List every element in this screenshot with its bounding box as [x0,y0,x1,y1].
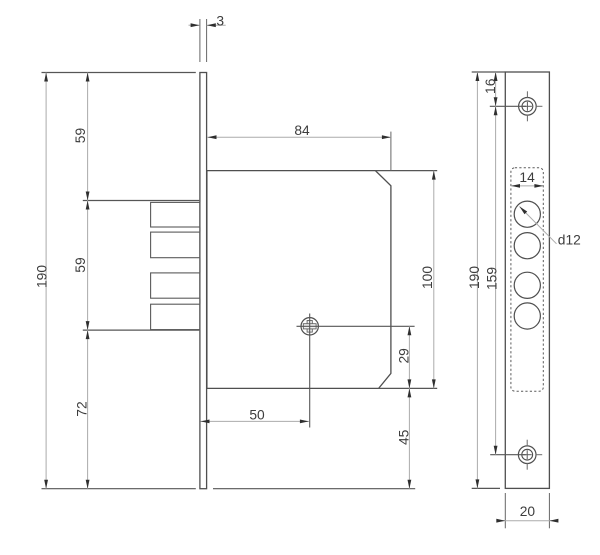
deadbolt pin 4 (side view) [151,304,200,329]
top screw hole outer circle [519,98,537,116]
centerline vertical through spindle hole to 50 dim [309,314,311,428]
arrow 59 top [86,73,90,82]
svg-text:59: 59 [73,257,88,273]
arrow 84 left [208,135,217,139]
svg-text:3: 3 [216,13,224,28]
arrow 50 right [300,420,309,424]
arrow 190 top [44,73,48,82]
spindle hole cross insert - vertical bar [307,321,312,333]
extension line - 3 dim right [206,19,208,62]
leader line d12 [520,207,557,244]
arrow 3 left [191,23,200,27]
deadbolt pin 3 (side view) [151,273,200,298]
bottom screw hole centerline dashes [526,440,528,447]
arrow 100 bottom [432,379,436,388]
lock case body (side view, chamfered right corners) [207,171,391,389]
extension line - bottom right of faceplate to 45 dim [213,488,415,490]
top screw hole centerline dashes [526,91,528,98]
arrow pair lower boundary [86,321,90,330]
centerline horizontal through spindle hole to 29 dim [297,325,415,327]
arrow 20 right [549,519,558,523]
svg-text:190: 190 [467,266,482,289]
svg-text:59: 59 [73,128,88,144]
dimension line 3 left tail [189,24,200,26]
dimension line 50 [201,420,309,422]
faceplate (front view) [505,72,549,488]
arrow 50 left [201,420,210,424]
top screw hole inner circle [522,101,533,112]
dimension line 59-59-72 chain [87,73,89,489]
dimension line 16-159 chain [495,72,497,455]
extension line - 20 dim right [548,493,550,528]
extension line - faceplate bottom left part [42,488,196,490]
arrow 190 bottom [44,480,48,489]
svg-text:50: 50 [249,408,265,423]
dimension line 3 right tail [207,24,226,26]
svg-text:100: 100 [420,266,435,289]
extension line - lower bolt group boundary [83,329,200,331]
deadbolt pin 1 (side view) [151,202,200,227]
arrow 190fv bottom [476,479,480,488]
arrow pair at body bottom [408,379,412,388]
dimension line 190 front view [476,72,478,488]
svg-text:29: 29 [396,348,411,364]
bottom screw hole center cross [523,454,532,456]
extension line - plate bottom to 190 dim [472,487,500,489]
extension line - upper bolt group boundary [83,200,200,202]
bottom screw hole outer circle [518,446,536,464]
bolt hole circle 2 (front view) [514,233,540,259]
bolt hole circle 3 (front view) [514,272,540,298]
faceplate (side view, 3mm thick plate) [200,73,207,489]
svg-text:14: 14 [519,170,535,185]
arrow 84 right [382,135,391,139]
svg-text:45: 45 [396,429,411,445]
arrow 14 right [534,184,543,188]
top screw hole center cross [523,105,532,107]
extension line - 84 dim right above body [390,132,392,171]
arrow 29 top [408,326,412,335]
spindle hole cross insert - horizontal bar [303,324,316,329]
bolt hole circle 1 (front view) [514,201,540,227]
arrow pair at top screw center [494,97,498,106]
arrow 159 bottom [494,446,498,455]
arrow 72 bottom [86,480,90,489]
svg-text:16: 16 [483,78,498,94]
extension line - plate top, front view [472,71,506,73]
arrow 45 bottom [408,480,412,489]
extension line - body bottom edge to 100 dim [379,387,438,389]
svg-text:159: 159 [484,267,499,290]
svg-text:d12: d12 [558,233,581,248]
extension line - faceplate top, left view [42,72,196,74]
deadbolt pin 2 (side view) [151,232,200,258]
arrow 20 left [496,519,505,523]
arrow 14 left [511,184,520,188]
dimension line 84 [208,136,391,138]
leader arrow d12 [520,207,528,215]
arrow 190fv top [476,72,480,81]
dimension line 190 left view [45,73,47,489]
dimension line 100 [433,171,435,389]
dimension line 29-45 chain [408,326,410,488]
svg-text:190: 190 [34,265,49,288]
arrow pair upper boundary [86,192,90,201]
bolt hole circle 4 (front view) [514,303,540,329]
spindle hole circle (side view) [301,318,318,335]
arrow 3 right [207,23,216,27]
svg-text:20: 20 [520,504,536,519]
extension line - 20 dim left [504,493,506,528]
arrow 16 top [494,72,498,81]
dashed cutout outline around bolt holes [511,168,543,391]
extension line - top screw center to dims [490,105,526,107]
extension line - bottom screw center to dims [490,454,526,456]
svg-text:72: 72 [74,401,89,416]
arrow 100 top [432,171,436,180]
svg-text:84: 84 [294,123,310,138]
bottom screw hole inner circle [522,449,533,460]
dimension line 14 [511,185,543,187]
extension line - 3 dim left [199,19,201,62]
dimension line 20 [498,520,558,522]
extension line - body top edge to 100 dim [375,170,437,172]
